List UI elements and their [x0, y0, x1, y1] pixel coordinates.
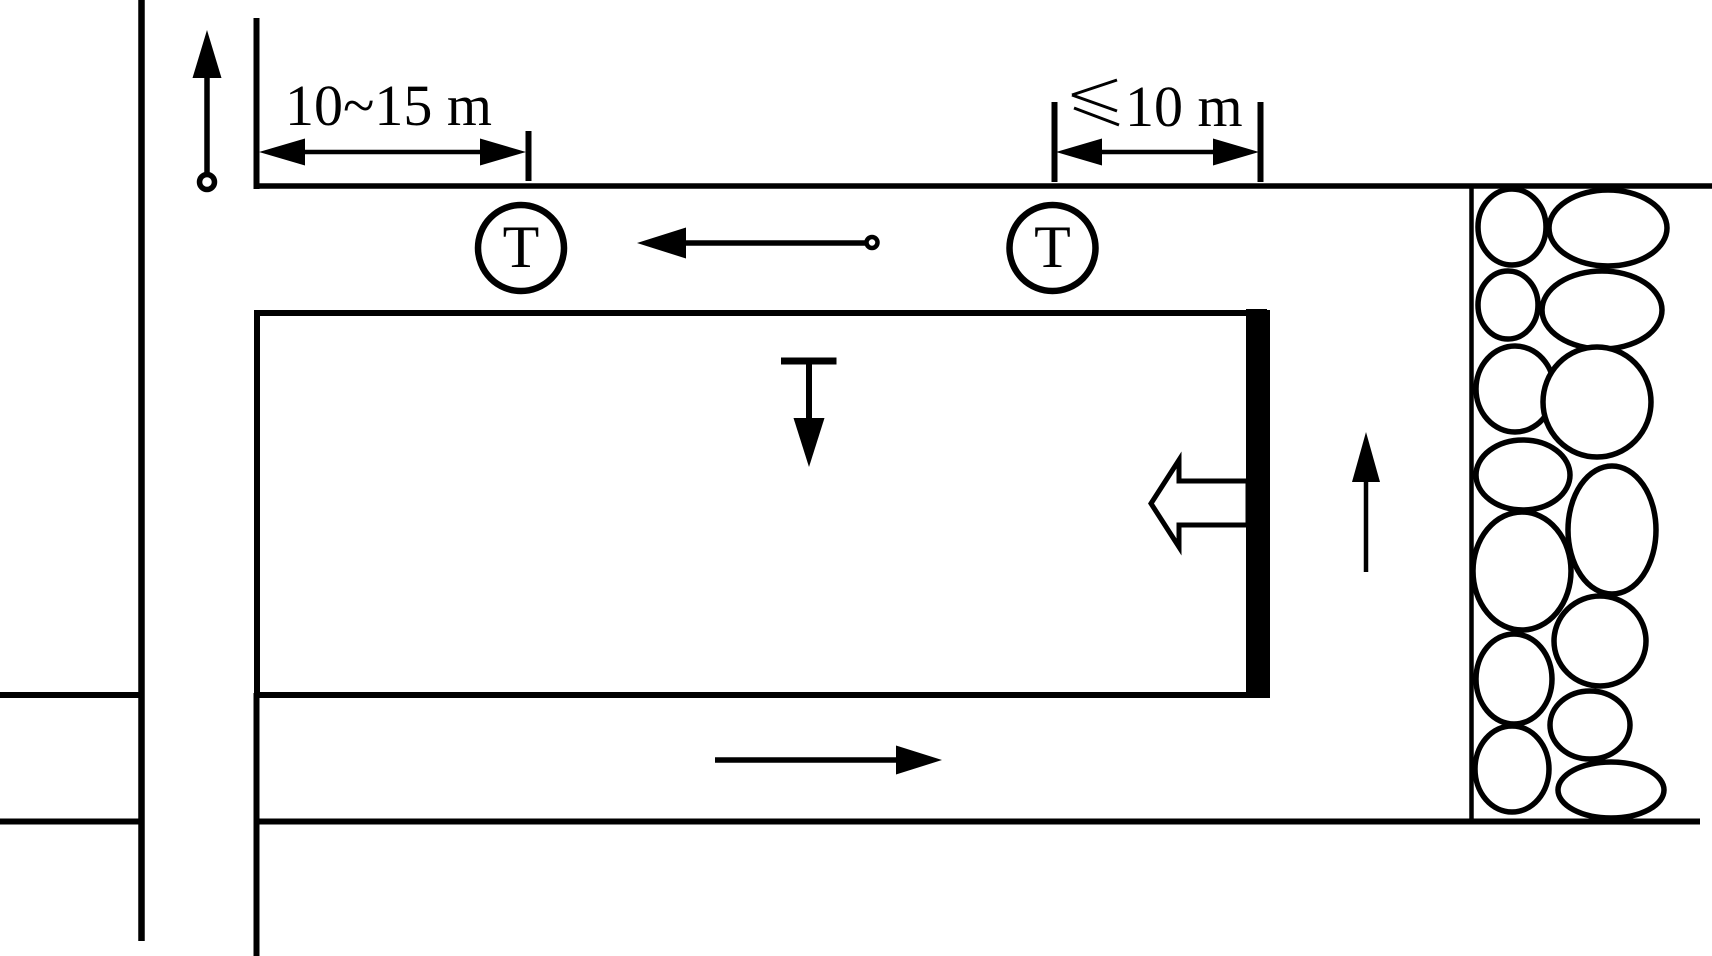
node gob rock R6: [1550, 691, 1630, 759]
node airflow-up arrow in tail entry: [1352, 432, 1380, 572]
node airflow-right arrow in bottom roadway: [715, 746, 942, 775]
node gob rock L4: [1476, 440, 1570, 510]
node airflow-up arrow in left shaft: [193, 30, 222, 190]
node airflow-left arrow in top roadway: [637, 228, 878, 259]
svg-text:T: T: [503, 214, 540, 280]
node gob rock R1: [1549, 190, 1667, 266]
wire left shaft wall: [138, 0, 145, 941]
svg-text:10 m: 10 m: [1125, 74, 1243, 139]
node working face rectangle: [257, 313, 1267, 695]
node roof-support T symbol with down arrow: [781, 361, 837, 467]
node gob rock L6: [1476, 634, 1552, 724]
node gob rock L2: [1478, 271, 1538, 339]
dimension le 10 m: [1055, 74, 1261, 182]
node coal face thick bar: [1246, 309, 1267, 698]
svg-text:T: T: [1034, 214, 1071, 280]
dimension 10~15 m: [259, 73, 529, 181]
node gob rock L7: [1475, 726, 1549, 812]
wire left block upper line: [0, 692, 141, 698]
node hollow airflow arrow into face: [1151, 460, 1248, 547]
svg-text:10~15 m: 10~15 m: [285, 73, 492, 138]
sensor T1 circle: [478, 205, 564, 291]
wire goaf boundary vertical line: [1469, 185, 1474, 820]
node gob rock L1: [1478, 189, 1546, 265]
node gob rock R7: [1558, 762, 1664, 818]
node gob rock L5: [1473, 512, 1571, 630]
wire left block lower line: [0, 819, 141, 825]
node gob rock R4: [1568, 466, 1656, 594]
wire upper entry left wall: [254, 18, 260, 189]
node gob rock R2: [1542, 271, 1662, 349]
node gob rock R3: [1543, 347, 1651, 457]
sensor T2 circle: [1010, 205, 1096, 291]
wire bottom roadway floor line: [254, 819, 1700, 825]
wire lower gate left wall: [254, 693, 260, 956]
wire top roadway roof line: [254, 183, 1712, 189]
node gob rock R5: [1554, 596, 1646, 686]
node gob rock L3: [1476, 346, 1554, 432]
